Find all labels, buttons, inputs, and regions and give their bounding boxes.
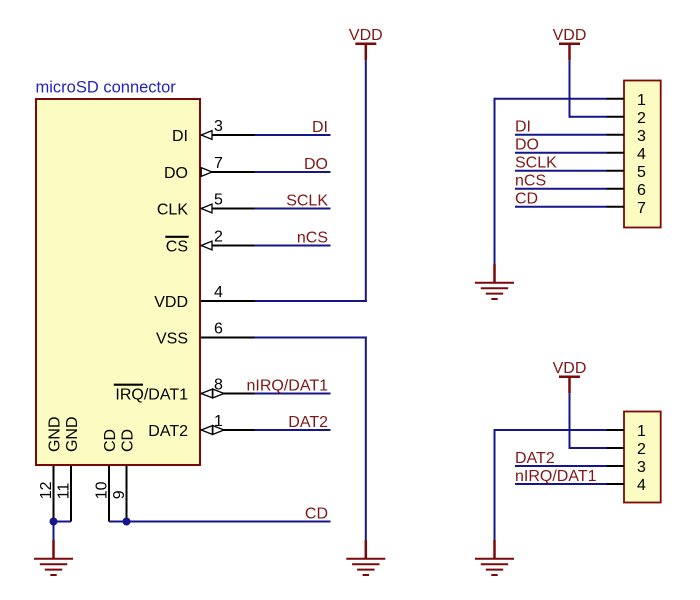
wire VSS vertical drop [365,337,367,542]
svg-text:CS: CS [166,238,188,255]
svg-text:4: 4 [637,146,646,163]
svg-text:DO: DO [304,156,328,173]
pin 11 wire (GND) [70,466,72,522]
pin 4 number [214,284,223,301]
svg-text:VDD: VDD [553,27,587,44]
wire VDD vertical riser [365,60,367,302]
svg-text:11: 11 [55,483,72,500]
J3 pin 1 stub [607,429,625,431]
svg-text:1: 1 [637,92,646,109]
pin 3 input arrow [201,131,212,140]
pin 7 output arrow [201,168,212,177]
ground symbol (lower right) [475,540,514,575]
svg-text:7: 7 [637,200,646,217]
net label DO (J2) [515,137,539,154]
wire J2 pin5 net SCLK [515,170,607,172]
svg-text:6: 6 [214,320,223,337]
svg-text:DO: DO [515,137,539,154]
svg-text:SCLK: SCLK [515,155,557,172]
svg-text:nCS: nCS [297,229,328,246]
svg-text:4: 4 [637,477,646,494]
svg-text:DAT2: DAT2 [515,450,555,467]
net label nCS (J2) [515,173,546,190]
svg-text:nIRQ/DAT1: nIRQ/DAT1 [247,377,329,394]
wire CD net [109,521,331,523]
pin 8 wire (IRQ/DAT1) [201,393,331,395]
svg-text:4: 4 [214,284,223,301]
J2 pin 4 number [637,146,646,163]
svg-text:VDD: VDD [154,294,188,311]
J2 pin 1 stub [607,98,625,100]
J2 pin 3 stub [607,134,625,136]
svg-text:2: 2 [637,110,646,127]
svg-text:1: 1 [637,423,646,440]
pin name CS with overline [165,237,188,256]
svg-text:IRQ/DAT1: IRQ/DAT1 [115,386,188,403]
pin 4 wire (VDD) to power [201,300,367,302]
pin 1 bidirectional arrow [201,426,224,435]
pin name VDD [154,294,188,311]
svg-text:12: 12 [38,481,55,499]
net label nCS [297,229,328,246]
connector J2 7-pin body [624,81,661,228]
pin 10 number (rotated) [93,481,110,499]
junction CD [123,518,131,526]
svg-text:3: 3 [637,459,646,476]
wire GND join [54,522,72,542]
wire J3 pin1 to ground [495,429,607,541]
svg-text:CD: CD [102,429,119,452]
svg-text:3: 3 [214,118,223,135]
pin 9 wire (CD) [126,466,128,522]
net label nIRQ/DAT1 [247,377,329,394]
pin name DO [164,165,188,182]
pin 12 wire (GND) [53,466,55,522]
svg-text:DAT2: DAT2 [148,423,188,440]
net label DI (J2) [515,119,531,136]
power symbol VDD (upper right) [553,27,587,60]
J2 pin 6 stub [607,188,625,190]
wire J2 pin2 to VDD [570,60,607,118]
svg-text:7: 7 [214,155,223,172]
pin 8 number [214,376,223,393]
wire J3 pin4 net nIRQ/DAT1 [515,483,607,485]
pin name GND (pin 11, rotated) [64,416,81,452]
wire J3 pin3 net DAT2 [515,465,607,467]
ground symbol (middle) [346,540,385,575]
pin 5 wire (CLK) [201,208,331,210]
svg-text:6: 6 [637,182,646,199]
svg-text:GND: GND [46,416,63,452]
pin 6 wire (VSS) to ground [201,337,367,339]
svg-text:nCS: nCS [515,173,546,190]
svg-text:DAT2: DAT2 [288,414,328,431]
svg-text:VDD: VDD [553,360,587,377]
net label nIRQ/DAT1 (J3) [515,468,597,485]
svg-text:VSS: VSS [156,330,188,347]
wire J2 pin6 net nCS [515,188,607,190]
J3 pin 2 stub [607,447,625,449]
pin name DI [172,128,188,145]
net label SCLK [286,192,328,209]
pin name CD (pin 10, rotated) [102,429,119,452]
J3 pin 4 number [637,477,646,494]
svg-text:10: 10 [93,481,110,499]
wire J2 pin4 net DO [515,152,607,154]
pin 5 input arrow [201,204,212,213]
svg-text:2: 2 [637,441,646,458]
J2 pin 3 number [637,128,646,145]
connector U1 microSD body [36,99,200,465]
pin 7 wire (DO) [201,171,331,173]
svg-text:GND: GND [64,416,81,452]
pin name DAT2 [148,423,188,440]
J2 pin 4 stub [607,152,625,154]
net label CD [305,505,328,522]
J2 pin 7 stub [607,206,625,208]
svg-text:CD: CD [515,191,538,208]
net label DAT2 [288,414,328,431]
pin name GND (pin 12, rotated) [46,416,63,452]
ground symbol (left) [34,540,73,575]
pin 6 number [214,320,223,337]
svg-text:nIRQ/DAT1: nIRQ/DAT1 [515,468,597,485]
svg-text:VDD: VDD [349,27,383,44]
J2 pin 5 number [637,164,646,181]
svg-text:CD: CD [305,505,328,522]
svg-text:microSD connector: microSD connector [36,79,177,97]
wire J2 pin3 net DI [515,134,607,136]
svg-text:CLK: CLK [157,201,188,218]
J3 pin 3 number [637,459,646,476]
pin 8 bidirectional arrow [201,389,224,398]
J2 pin 2 number [637,110,646,127]
pin 12 number (rotated) [38,481,55,499]
pin name CLK [157,201,188,218]
svg-text:CD: CD [119,429,136,452]
pin 1 wire (DAT2) [201,429,331,431]
power symbol VDD (lower right) [553,360,587,393]
pin 3 number [214,118,223,135]
pin 3 wire (DI) [201,134,331,136]
pin 5 number [214,191,223,208]
label: microSD connector title [36,79,177,97]
ground symbol (upper right) [475,264,514,299]
wire J2 pin7 net CD [515,206,607,208]
J2 pin 5 stub [607,170,625,172]
svg-text:DO: DO [164,165,188,182]
J3 pin 3 stub [607,465,625,467]
J2 pin 6 number [637,182,646,199]
pin name VSS [156,330,188,347]
pin 1 number [214,413,223,430]
svg-text:DI: DI [515,119,531,136]
pin 7 number [214,155,223,172]
pin name CD (pin 9, rotated) [119,429,136,452]
J2 pin 2 stub [607,116,625,118]
svg-text:DI: DI [312,119,328,136]
pin name IRQ/DAT1 with overline on IRQ [114,385,188,404]
connector J3 4-pin body [624,412,661,503]
svg-text:5: 5 [214,191,223,208]
net label DO [304,156,328,173]
pin 9 number (rotated) [111,490,128,499]
svg-text:DI: DI [172,128,188,145]
J2 pin 7 number [637,200,646,217]
J3 pin 2 number [637,441,646,458]
junction GND [50,518,58,526]
svg-text:2: 2 [214,228,223,245]
svg-text:3: 3 [637,128,646,145]
net label SCLK (J2) [515,155,557,172]
J3 pin 1 number [637,423,646,440]
wire J3 pin2 to VDD [570,393,607,449]
net label DI [312,119,328,136]
net label CD (J2) [515,191,538,208]
pin 2 wire (CS) [201,245,331,247]
pin 11 number (rotated) [55,483,72,500]
svg-text:SCLK: SCLK [286,192,328,209]
wire J2 pin1 to ground [495,98,607,265]
power symbol VDD (top middle) [349,27,383,60]
J3 pin 4 stub [607,483,625,485]
net label DAT2 (J3) [515,450,555,467]
pin 2 input arrow [201,241,212,250]
svg-text:5: 5 [637,164,646,181]
J2 pin 1 number [637,92,646,109]
pin 2 number [214,228,223,245]
pin 10 wire (CD) [108,466,110,522]
svg-text:9: 9 [111,490,128,499]
